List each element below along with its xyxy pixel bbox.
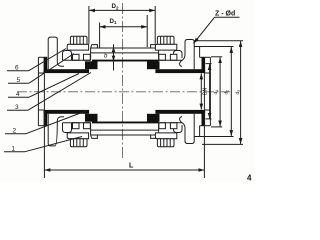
svg-text:1: 1 [12, 146, 16, 153]
svg-text:d2: d2 [224, 90, 230, 95]
svg-text:4: 4 [16, 91, 20, 98]
svg-text:Z - Ød: Z - Ød [215, 11, 235, 18]
svg-text:D2: D2 [112, 3, 119, 10]
svg-text:2: 2 [13, 127, 17, 134]
svg-text:d1: d1 [213, 90, 219, 95]
svg-text:L: L [129, 163, 134, 170]
svg-text:DN: DN [202, 87, 208, 95]
svg-text:5: 5 [17, 77, 21, 84]
svg-text:b: b [104, 54, 108, 60]
svg-text:3: 3 [15, 104, 19, 111]
svg-text:4: 4 [247, 174, 252, 183]
svg-text:6: 6 [15, 65, 19, 72]
svg-text:d3: d3 [235, 90, 241, 95]
svg-text:D1: D1 [110, 18, 117, 25]
